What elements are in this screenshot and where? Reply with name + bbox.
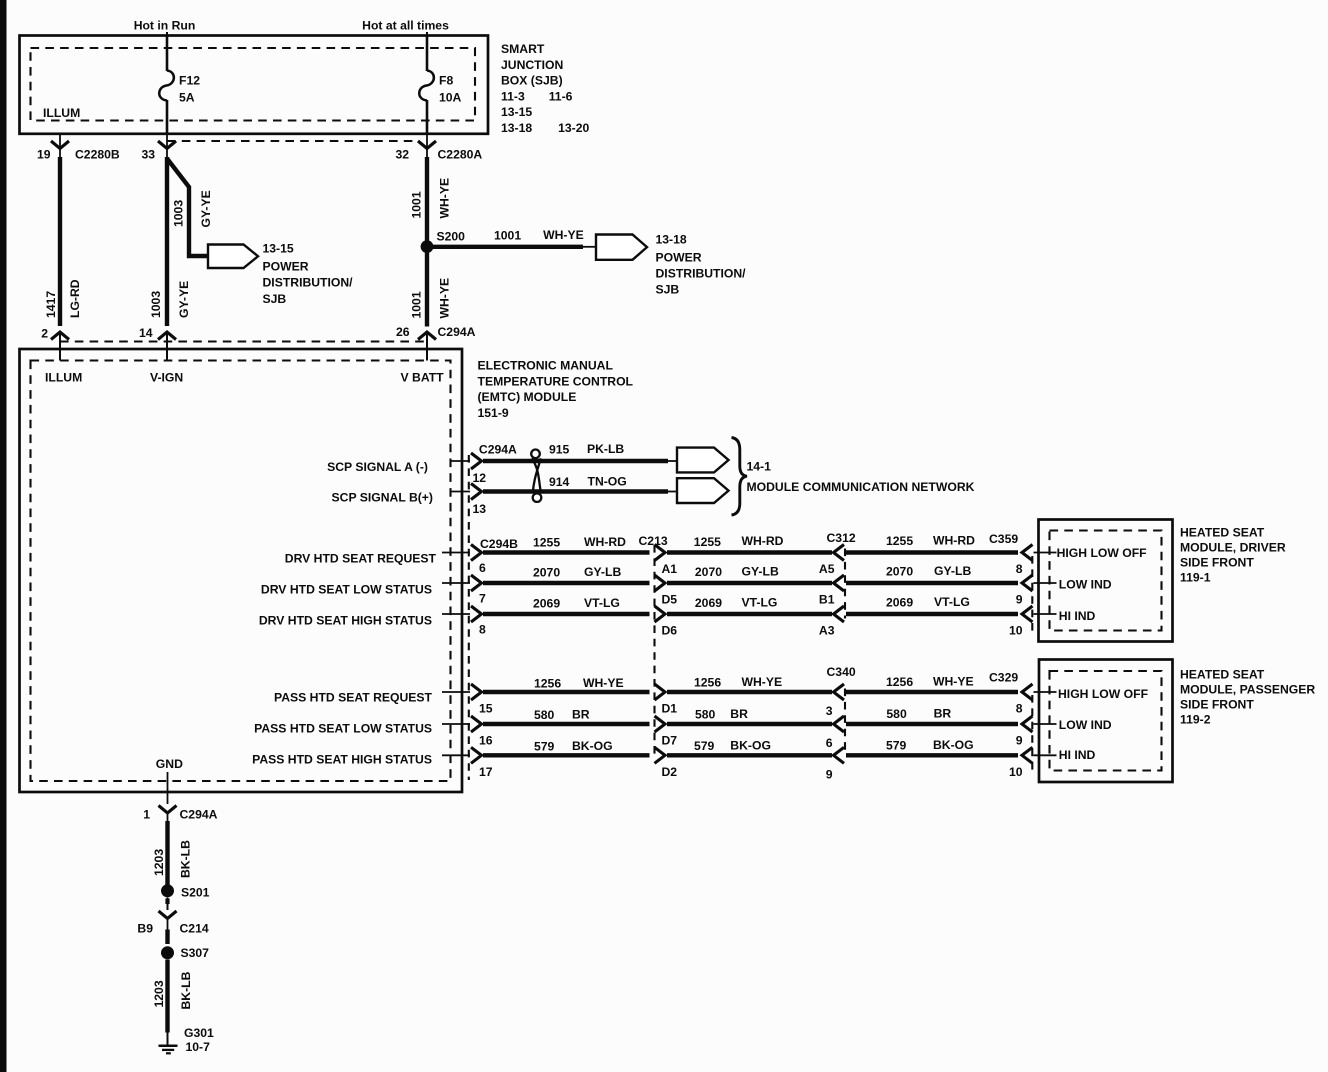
- svg-text:G301: G301: [184, 1026, 214, 1040]
- svg-text:JUNCTION: JUNCTION: [501, 58, 563, 72]
- svg-text:SCP SIGNAL B(+): SCP SIGNAL B(+): [332, 491, 433, 505]
- wire 2070 GY-LB seg2: [667, 581, 832, 585]
- wire 915 PK-LB: [483, 459, 668, 463]
- wire 579 BK-OG seg2: [667, 753, 832, 757]
- connector pin 32 C2280A: [418, 141, 436, 149]
- svg-text:6: 6: [826, 736, 833, 750]
- wire 1417 LG-RD: [58, 157, 62, 326]
- wire 2070 GY-LB seg1: [483, 581, 650, 585]
- svg-text:ELECTRONIC MANUAL: ELECTRONIC MANUAL: [478, 359, 614, 373]
- svg-text:C294A: C294A: [180, 808, 218, 822]
- wire 1255 WH-RD seg1: [483, 550, 650, 554]
- svg-text:VT-LG: VT-LG: [584, 596, 620, 610]
- svg-text:LOW IND: LOW IND: [1059, 578, 1112, 592]
- connector C312 pin B1 arrow: [834, 575, 845, 591]
- svg-text:9: 9: [826, 767, 833, 781]
- svg-text:1255: 1255: [694, 535, 721, 549]
- svg-text:2: 2: [41, 327, 48, 341]
- arrow-flag 13-18: [596, 235, 647, 260]
- svg-text:LOW IND: LOW IND: [1059, 718, 1112, 732]
- connector pin 12 arrow: [471, 453, 482, 469]
- svg-text:14: 14: [139, 326, 153, 340]
- connector C329 pin 10 arrow: [1022, 747, 1033, 763]
- connector pin 17 arrow: [471, 747, 482, 763]
- svg-text:19: 19: [37, 148, 51, 162]
- connector C340 pin 9 arrow: [834, 747, 845, 763]
- svg-text:10-7: 10-7: [186, 1040, 211, 1054]
- wire 579 BK-OG seg1: [483, 753, 650, 757]
- connector pin 19 C2280B: [51, 141, 69, 149]
- stub pin 16: [442, 723, 470, 725]
- svg-text:MODULE, PASSENGER: MODULE, PASSENGER: [1180, 683, 1315, 697]
- connector C359 pin 10 arrow: [1022, 606, 1033, 622]
- svg-text:10: 10: [1009, 624, 1023, 638]
- connector C213 pin D7 arrow: [655, 716, 666, 732]
- wire 2069 VT-LG seg1: [483, 612, 650, 616]
- brace 14-1: [732, 438, 748, 516]
- connector C329 dashed line: [1031, 695, 1033, 770]
- svg-text:ILLUM: ILLUM: [43, 106, 80, 120]
- svg-text:C329: C329: [989, 671, 1018, 685]
- svg-text:580: 580: [695, 708, 716, 722]
- wire 2070 GY-LB seg3: [846, 581, 1018, 585]
- svg-text:F8: F8: [439, 74, 453, 88]
- svg-text:5A: 5A: [179, 91, 195, 105]
- svg-text:15: 15: [479, 702, 493, 716]
- svg-text:ILLUM: ILLUM: [45, 371, 82, 385]
- svg-text:1255: 1255: [533, 536, 560, 550]
- wire 2069 VT-LG seg2: [667, 612, 832, 616]
- svg-text:C2280B: C2280B: [75, 148, 120, 162]
- svg-text:579: 579: [534, 739, 555, 753]
- wire above S307: [165, 930, 169, 945]
- svg-text:13-20: 13-20: [558, 121, 589, 135]
- heated seat module driver outline: [1039, 520, 1173, 642]
- splice S307: [161, 946, 174, 959]
- svg-text:DRV HTD SEAT LOW STATUS: DRV HTD SEAT LOW STATUS: [261, 583, 432, 597]
- svg-text:D7: D7: [662, 734, 678, 748]
- svg-text:WH-YE: WH-YE: [583, 676, 624, 690]
- stub into seat module: [1034, 552, 1057, 554]
- svg-text:D6: D6: [662, 624, 678, 638]
- splice S200: [421, 240, 434, 253]
- svg-text:TN-OG: TN-OG: [588, 475, 627, 489]
- wire 1203 BK-LB lower: [165, 960, 169, 1033]
- wire 580 BR seg3: [846, 722, 1018, 726]
- connector pin 13 arrow: [471, 484, 482, 500]
- svg-text:579: 579: [886, 738, 907, 752]
- svg-text:SMART: SMART: [501, 42, 545, 56]
- connector C340 dashed line: [844, 689, 846, 754]
- connector pin B9 C214: [159, 911, 177, 919]
- svg-text:Hot at all times: Hot at all times: [362, 19, 449, 33]
- heated seat module driver dashed outline: [1050, 531, 1162, 631]
- svg-text:8: 8: [479, 623, 486, 637]
- svg-text:2069: 2069: [533, 597, 560, 611]
- svg-text:LG-RD: LG-RD: [68, 279, 82, 318]
- svg-text:BK-OG: BK-OG: [730, 738, 771, 752]
- connector pin 2 C294A: [51, 332, 69, 340]
- svg-text:DISTRIBUTION/: DISTRIBUTION/: [656, 267, 747, 281]
- svg-text:BR: BR: [730, 707, 748, 721]
- wire thin into flag: [583, 246, 596, 248]
- svg-text:GND: GND: [156, 757, 183, 771]
- svg-text:HEATED SEAT: HEATED SEAT: [1180, 668, 1265, 682]
- svg-text:8: 8: [1016, 702, 1023, 716]
- pin B9 stem: [167, 919, 169, 933]
- svg-text:1: 1: [143, 808, 150, 822]
- svg-text:F12: F12: [179, 74, 200, 88]
- svg-text:7: 7: [479, 592, 486, 606]
- svg-text:SJB: SJB: [656, 283, 680, 297]
- svg-text:S201: S201: [181, 886, 210, 900]
- splice S201: [161, 884, 174, 897]
- wire fuse F12 upper: [166, 36, 169, 72]
- svg-text:13-15: 13-15: [501, 105, 532, 119]
- svg-text:A3: A3: [819, 624, 835, 638]
- svg-text:GY-LB: GY-LB: [584, 565, 621, 579]
- svg-text:32: 32: [395, 148, 409, 162]
- connector C359 dashed line: [1031, 556, 1033, 631]
- svg-text:DRV HTD SEAT REQUEST: DRV HTD SEAT REQUEST: [285, 552, 437, 566]
- heated seat module passenger outline: [1039, 660, 1173, 783]
- svg-text:A1: A1: [662, 562, 678, 576]
- arrow-flag module comm network B: [677, 478, 729, 503]
- SCP A stub: [450, 460, 470, 462]
- pin 2 stem: [59, 332, 61, 361]
- svg-text:2070: 2070: [695, 565, 722, 579]
- twisted pair symbol: [531, 450, 540, 459]
- stub into seat module: [1034, 754, 1057, 756]
- stub pin 7: [442, 582, 470, 584]
- stub pin 15: [442, 691, 470, 693]
- pin 14 stem: [166, 332, 168, 361]
- svg-text:D5: D5: [662, 593, 678, 607]
- wire fuse F8 lower: [426, 100, 429, 134]
- heated seat module passenger dashed outline: [1050, 671, 1162, 771]
- svg-text:9: 9: [1016, 734, 1023, 748]
- svg-text:B1: B1: [819, 593, 835, 607]
- pin 1 stem: [167, 792, 169, 804]
- svg-text:WH-RD: WH-RD: [742, 534, 784, 548]
- svg-text:WH-YE: WH-YE: [543, 228, 584, 242]
- arrow-flag module comm network A: [677, 448, 729, 473]
- connector C294A dashed line: [60, 340, 426, 342]
- svg-text:VT-LG: VT-LG: [742, 596, 778, 610]
- svg-text:V BATT: V BATT: [401, 371, 445, 385]
- svg-text:BOX (SJB): BOX (SJB): [501, 74, 563, 88]
- pin 32 stem: [426, 134, 428, 157]
- svg-text:2069: 2069: [886, 595, 913, 609]
- svg-text:579: 579: [694, 739, 715, 753]
- connector face dashed line x469: [468, 455, 470, 780]
- svg-text:1417: 1417: [44, 291, 58, 318]
- svg-text:C2280A: C2280A: [438, 148, 483, 162]
- connector pin 15 arrow: [471, 684, 482, 700]
- svg-text:1003: 1003: [149, 291, 163, 318]
- connector C213 pin D6 arrow: [655, 606, 666, 622]
- svg-text:BK-OG: BK-OG: [572, 739, 613, 753]
- svg-text:HI IND: HI IND: [1059, 609, 1096, 623]
- page margin bar: [0, 0, 7, 1072]
- svg-text:119-2: 119-2: [1180, 713, 1211, 727]
- svg-text:V-IGN: V-IGN: [150, 371, 183, 385]
- svg-text:A5: A5: [819, 562, 835, 576]
- svg-text:WH-RD: WH-RD: [584, 535, 626, 549]
- SCP B stub: [450, 491, 470, 493]
- connector pin 6 arrow: [471, 545, 482, 561]
- stub into seat module: [1034, 691, 1057, 693]
- svg-text:13-15: 13-15: [263, 242, 294, 256]
- svg-text:13: 13: [473, 502, 487, 516]
- svg-text:GY-LB: GY-LB: [742, 565, 779, 579]
- svg-text:S200: S200: [437, 230, 466, 244]
- svg-text:33: 33: [141, 148, 155, 162]
- pin 26 stem: [426, 332, 428, 361]
- wire 1203 BK-LB upper: [165, 821, 169, 885]
- svg-text:11-6: 11-6: [549, 89, 573, 103]
- wire 579 BK-OG seg3: [846, 753, 1018, 757]
- svg-text:1203: 1203: [152, 849, 166, 876]
- stub into seat module: [1034, 723, 1057, 725]
- wire 1003 branch diagonal: [167, 159, 208, 257]
- connector C2280 dashed line: [167, 140, 419, 142]
- svg-text:1001: 1001: [494, 229, 521, 243]
- svg-text:8: 8: [1016, 562, 1023, 576]
- wire 580 BR seg2: [667, 722, 832, 726]
- stub into seat module: [1034, 613, 1057, 615]
- wire thin to ground: [167, 1033, 169, 1046]
- stub pin 17: [442, 754, 470, 756]
- svg-text:VT-LG: VT-LG: [934, 595, 970, 609]
- svg-text:16: 16: [479, 734, 493, 748]
- connector C329 pin 9 arrow: [1022, 716, 1033, 732]
- wire fuse F12 lower: [166, 100, 169, 134]
- svg-text:PASS HTD SEAT HIGH STATUS: PASS HTD SEAT HIGH STATUS: [252, 753, 432, 767]
- svg-text:C294A: C294A: [479, 443, 517, 457]
- connector C213 pin A1 arrow: [655, 545, 666, 561]
- svg-text:BR: BR: [934, 707, 952, 721]
- wire below S201: [167, 898, 169, 911]
- connector pin 14 C294A: [158, 332, 176, 340]
- svg-text:26: 26: [396, 325, 410, 339]
- svg-text:119-1: 119-1: [1180, 571, 1211, 585]
- wire 1001 WH-YE upper: [425, 157, 429, 327]
- svg-text:914: 914: [549, 475, 570, 489]
- svg-text:11-3: 11-3: [501, 89, 525, 103]
- connector pin 33 C2280B: [158, 141, 176, 149]
- svg-text:915: 915: [549, 443, 570, 457]
- svg-text:GY-YE: GY-YE: [199, 190, 213, 227]
- connector C359 pin 9 arrow: [1022, 575, 1033, 591]
- svg-text:C294A: C294A: [438, 325, 476, 339]
- svg-text:Hot in Run: Hot in Run: [134, 19, 196, 33]
- svg-text:1001: 1001: [410, 191, 424, 218]
- connector C329 pin 8 arrow: [1022, 684, 1033, 700]
- connector pin 16 arrow: [471, 716, 482, 732]
- wire hot-in-run stub: [166, 32, 168, 36]
- svg-text:D1: D1: [662, 702, 678, 716]
- svg-text:151-9: 151-9: [478, 406, 509, 420]
- svg-text:C214: C214: [180, 922, 209, 936]
- svg-text:PK-LB: PK-LB: [587, 442, 624, 456]
- svg-text:10: 10: [1009, 765, 1023, 779]
- connector C213 pin D1 arrow: [655, 684, 666, 700]
- connector pin 7 arrow: [471, 575, 482, 591]
- svg-text:BK-LB: BK-LB: [179, 971, 193, 1009]
- svg-text:(EMTC) MODULE: (EMTC) MODULE: [478, 390, 577, 404]
- svg-text:12: 12: [473, 471, 487, 485]
- svg-text:GY-YE: GY-YE: [177, 281, 191, 318]
- svg-text:14-1: 14-1: [747, 460, 772, 474]
- svg-text:1003: 1003: [172, 200, 186, 227]
- svg-text:13-18: 13-18: [501, 121, 532, 135]
- pin 33 stem: [166, 134, 168, 157]
- svg-text:DISTRIBUTION/: DISTRIBUTION/: [263, 276, 354, 290]
- svg-text:B9: B9: [137, 922, 153, 936]
- svg-text:SCP SIGNAL A (-): SCP SIGNAL A (-): [327, 460, 428, 474]
- svg-text:13-18: 13-18: [656, 233, 687, 247]
- svg-text:HI IND: HI IND: [1059, 748, 1096, 762]
- svg-text:2069: 2069: [695, 596, 722, 610]
- wire 1255 WH-RD seg3: [846, 550, 1018, 554]
- svg-text:C213: C213: [639, 534, 668, 548]
- svg-text:C340: C340: [827, 665, 856, 679]
- svg-text:HEATED SEAT: HEATED SEAT: [1180, 526, 1265, 540]
- svg-text:6: 6: [479, 561, 486, 575]
- svg-text:C294B: C294B: [480, 537, 518, 551]
- connector pin 1 C294A: [159, 806, 177, 814]
- svg-text:SIDE FRONT: SIDE FRONT: [1180, 556, 1254, 570]
- svg-text:D2: D2: [662, 765, 678, 779]
- svg-text:WH-YE: WH-YE: [438, 178, 452, 219]
- svg-text:DRV HTD SEAT HIGH STATUS: DRV HTD SEAT HIGH STATUS: [259, 614, 432, 628]
- connector C213 pin D2 arrow: [655, 747, 666, 763]
- wire 2069 VT-LG seg3: [846, 612, 1018, 616]
- svg-text:1203: 1203: [152, 980, 166, 1007]
- smart junction box SJB outline: [20, 36, 489, 134]
- wire 1256 WH-YE seg2: [667, 690, 832, 694]
- svg-text:1255: 1255: [886, 534, 913, 548]
- svg-text:MODULE, DRIVER: MODULE, DRIVER: [1180, 541, 1286, 555]
- svg-text:POWER: POWER: [656, 251, 702, 265]
- wire 1003 GY-YE: [165, 157, 169, 326]
- connector C213 pin D5 arrow: [655, 575, 666, 591]
- svg-text:1001: 1001: [410, 291, 424, 318]
- svg-text:10A: 10A: [439, 91, 462, 105]
- svg-text:2070: 2070: [886, 565, 913, 579]
- connector C359 pin 8 arrow: [1022, 545, 1033, 561]
- stub pin 6: [442, 552, 470, 554]
- EMTC module outline: [20, 349, 463, 792]
- fuse F8: [419, 71, 434, 101]
- svg-text:BK-LB: BK-LB: [179, 840, 193, 878]
- svg-text:BK-OG: BK-OG: [933, 738, 974, 752]
- svg-text:SIDE FRONT: SIDE FRONT: [1180, 698, 1254, 712]
- svg-text:2070: 2070: [533, 566, 560, 580]
- SJB inner dashed outline: [31, 48, 476, 121]
- fuse F12: [159, 71, 174, 101]
- svg-text:HIGH LOW OFF: HIGH LOW OFF: [1058, 687, 1148, 701]
- svg-text:1256: 1256: [886, 675, 913, 689]
- svg-text:17: 17: [479, 765, 493, 779]
- wire 1256 WH-YE seg1: [483, 690, 650, 694]
- wire 914 TN-OG: [483, 489, 668, 493]
- wire 1001 WH-YE to SJB flag: [431, 245, 583, 249]
- connector pin 26 C294A: [418, 332, 436, 340]
- arrow-flag 13-15: [208, 245, 258, 269]
- svg-text:WH-YE: WH-YE: [933, 675, 974, 689]
- svg-text:PASS HTD SEAT LOW STATUS: PASS HTD SEAT LOW STATUS: [254, 722, 432, 736]
- svg-text:WH-YE: WH-YE: [438, 278, 452, 319]
- svg-text:WH-RD: WH-RD: [933, 534, 975, 548]
- connector C340 pin 6 arrow: [834, 716, 845, 732]
- EMTC inner dashed outline: [31, 361, 451, 782]
- svg-text:S307: S307: [181, 946, 210, 960]
- svg-text:WH-YE: WH-YE: [742, 675, 783, 689]
- svg-text:SJB: SJB: [263, 292, 287, 306]
- svg-text:GY-LB: GY-LB: [934, 564, 971, 578]
- svg-text:C359: C359: [989, 532, 1018, 546]
- stub into seat module: [1034, 582, 1057, 584]
- svg-text:MODULE COMMUNICATION NETWORK: MODULE COMMUNICATION NETWORK: [747, 480, 975, 494]
- wire hot-at-all-times stub: [426, 32, 428, 36]
- pin 1 stem lower: [167, 813, 169, 821]
- svg-text:HIGH LOW OFF: HIGH LOW OFF: [1057, 546, 1147, 560]
- svg-text:POWER: POWER: [263, 260, 309, 274]
- wire 1256 WH-YE seg3: [846, 690, 1018, 694]
- svg-text:BR: BR: [572, 708, 590, 722]
- connector C213 dashed line: [653, 545, 655, 757]
- wire 1255 WH-RD seg2: [667, 550, 832, 554]
- wire GND stub in module: [167, 772, 169, 792]
- svg-text:580: 580: [534, 708, 555, 722]
- wire fuse F8 upper: [426, 36, 429, 72]
- svg-text:TEMPERATURE CONTROL: TEMPERATURE CONTROL: [478, 374, 634, 388]
- svg-text:PASS HTD SEAT REQUEST: PASS HTD SEAT REQUEST: [274, 691, 433, 705]
- connector C312 dashed line: [844, 549, 846, 619]
- svg-text:C312: C312: [827, 531, 856, 545]
- svg-text:1256: 1256: [534, 677, 561, 691]
- pin 19 stem: [59, 134, 61, 157]
- ground G301 symbol: [159, 1044, 178, 1047]
- svg-text:3: 3: [826, 704, 833, 718]
- svg-text:1256: 1256: [694, 676, 721, 690]
- svg-text:580: 580: [886, 707, 907, 721]
- connector C312 pin A5 arrow: [834, 545, 845, 561]
- stub pin 8: [442, 613, 470, 615]
- connector pin 8 arrow: [471, 606, 482, 622]
- wire 580 BR seg1: [483, 722, 650, 726]
- connector C312 pin A3 arrow: [834, 606, 845, 622]
- svg-text:9: 9: [1016, 593, 1023, 607]
- connector C340 pin 3 arrow: [834, 684, 845, 700]
